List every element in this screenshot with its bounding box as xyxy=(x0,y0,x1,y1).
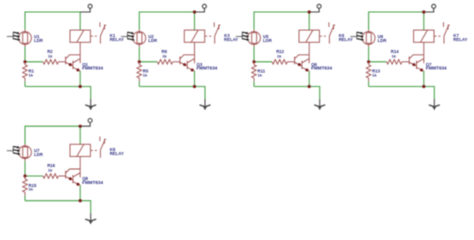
wire relay coil feed xyxy=(194,12,196,30)
wire relay coil feed xyxy=(308,12,310,30)
svg-text:RELAY: RELAY xyxy=(224,37,238,42)
svg-text:1k: 1k xyxy=(143,72,148,77)
junction emitter / ground rail xyxy=(79,85,82,88)
junction top rail xyxy=(193,10,196,13)
resistor R14 xyxy=(387,60,410,65)
wire relay coil feed xyxy=(423,12,425,30)
LDR U5 xyxy=(248,30,261,47)
relay actuation dashed link xyxy=(91,35,98,37)
svg-text:RELAY: RELAY xyxy=(339,37,353,42)
svg-text:RELAY: RELAY xyxy=(453,37,467,42)
wire emitter to ground rail xyxy=(423,71,425,87)
wire R13 bottom to ground rail xyxy=(368,81,370,86)
svg-text:RELAY: RELAY xyxy=(110,151,124,156)
junction emitter / ground rail xyxy=(308,85,311,88)
svg-text:FMMT634: FMMT634 xyxy=(82,66,103,71)
wire divider node to base resistor xyxy=(369,61,387,63)
LDR light arrows xyxy=(121,32,135,41)
wire ground rail xyxy=(139,87,205,100)
supply terminal pin xyxy=(80,119,92,127)
emitter arrow T1 xyxy=(412,63,415,66)
svg-text:RELAY: RELAY xyxy=(110,37,124,42)
emitter arrow T1 xyxy=(298,63,301,66)
junction divider node xyxy=(252,60,255,63)
LDR light arrows xyxy=(350,32,364,41)
resistor R11 xyxy=(252,62,257,82)
emitter arrow T2 xyxy=(76,69,79,72)
resistor R2 xyxy=(43,60,66,65)
relay coil K1 xyxy=(70,30,90,42)
resistor R12 xyxy=(272,60,295,65)
resistor R1 xyxy=(23,62,28,82)
wire LDR bottom to divider node xyxy=(253,47,255,62)
wire V+ top rail xyxy=(369,12,424,30)
emitter arrow T2 xyxy=(420,69,423,72)
junction divider node xyxy=(23,60,26,63)
relay contact switch K3 xyxy=(214,22,220,43)
wire LDR bottom to divider node xyxy=(138,47,140,62)
resistor R6 xyxy=(157,60,180,65)
junction emitter / ground rail xyxy=(193,85,196,88)
ground xyxy=(200,99,211,110)
wire R5 bottom to ground rail xyxy=(138,81,140,86)
wire relay coil feed xyxy=(79,12,81,30)
svg-text:LDR: LDR xyxy=(148,38,158,43)
relay coil K3 xyxy=(184,30,204,42)
relay contact switch K7 xyxy=(444,22,450,43)
wire emitter to ground rail xyxy=(79,185,81,201)
emitter arrow T1 xyxy=(183,63,186,66)
svg-text:FMMT634: FMMT634 xyxy=(197,66,218,71)
junction top rail xyxy=(422,10,425,13)
resistor R15 xyxy=(23,176,28,196)
svg-text:1k: 1k xyxy=(392,53,397,58)
relay contact switch K6 xyxy=(329,22,335,43)
wire V+ top rail xyxy=(254,12,309,30)
relay coil K6 xyxy=(299,30,319,42)
wire ground rail xyxy=(25,201,91,214)
wire R11 bottom to ground rail xyxy=(253,81,255,86)
relay actuation dashed link xyxy=(91,149,98,151)
wire relay coil feed xyxy=(79,126,81,144)
wire LDR bottom to divider node xyxy=(24,161,26,176)
wire emitter to ground rail xyxy=(308,71,310,87)
junction emitter / ground rail xyxy=(422,85,425,88)
wire divider node to base resistor xyxy=(25,175,43,177)
wire V+ top rail xyxy=(25,12,80,30)
svg-text:1k: 1k xyxy=(277,53,282,58)
relay actuation dashed link xyxy=(320,35,327,37)
svg-text:FMMT634: FMMT634 xyxy=(82,180,103,185)
ground xyxy=(429,99,440,110)
svg-text:1k: 1k xyxy=(162,53,167,58)
wire V+ top rail xyxy=(139,12,194,30)
wire LDR bottom to divider node xyxy=(368,47,370,62)
transistor Q8 FMMT634 darlington xyxy=(66,157,81,186)
relay coil K8 xyxy=(70,144,90,156)
resistor R13 xyxy=(366,62,371,82)
wire LDR bottom to divider node xyxy=(24,47,26,62)
wire divider node to base resistor xyxy=(139,61,157,63)
relay actuation dashed link xyxy=(205,35,212,37)
emitter arrow T2 xyxy=(76,183,79,186)
wire divider node to base resistor xyxy=(25,61,43,63)
svg-text:1k: 1k xyxy=(48,53,53,58)
LDR light arrows xyxy=(236,32,250,41)
ground xyxy=(314,99,325,110)
svg-text:1k: 1k xyxy=(258,72,263,77)
svg-text:LDR: LDR xyxy=(263,38,273,43)
relay coil K7 xyxy=(414,30,434,42)
ground xyxy=(85,213,96,224)
resistor R5 xyxy=(137,62,142,82)
junction top rail xyxy=(308,10,311,13)
emitter arrow T1 xyxy=(69,63,72,66)
wire divider node to base resistor xyxy=(254,61,272,63)
wire ground rail xyxy=(254,87,320,100)
junction divider node xyxy=(138,60,141,63)
svg-text:1k: 1k xyxy=(29,187,34,192)
supply terminal pin xyxy=(80,4,92,12)
wire ground rail xyxy=(25,87,91,100)
supply terminal pin xyxy=(309,4,321,12)
wire R15 bottom to ground rail xyxy=(24,196,26,201)
svg-text:1k: 1k xyxy=(372,72,377,77)
ground xyxy=(85,99,96,110)
supply terminal pin xyxy=(195,4,207,12)
LDR U2 xyxy=(133,30,146,47)
relay contact switch K1 xyxy=(100,22,106,43)
wire emitter to ground rail xyxy=(194,71,196,87)
transistor Q7 FMMT634 darlington xyxy=(409,42,424,71)
junction top rail xyxy=(79,125,82,128)
transistor Q6 FMMT634 darlington xyxy=(295,42,310,71)
emitter arrow T1 xyxy=(69,177,72,180)
junction divider node xyxy=(23,174,26,177)
svg-text:FMMT634: FMMT634 xyxy=(311,66,332,71)
svg-text:LDR: LDR xyxy=(34,38,44,43)
resistor R16 xyxy=(43,174,66,179)
transistor Q1 FMMT634 darlington xyxy=(66,42,81,71)
LDR U7 xyxy=(19,144,32,161)
wire V+ top rail xyxy=(25,126,80,144)
relay actuation dashed link xyxy=(434,35,441,37)
svg-text:1k: 1k xyxy=(48,168,53,173)
transistor Q3 FMMT634 darlington xyxy=(180,42,195,71)
supply terminal pin xyxy=(424,4,436,12)
svg-text:FMMT634: FMMT634 xyxy=(426,66,447,71)
svg-text:LDR: LDR xyxy=(378,38,388,43)
LDR U1 xyxy=(19,30,32,47)
emitter arrow T2 xyxy=(305,69,308,72)
wire emitter to ground rail xyxy=(79,71,81,87)
emitter arrow T2 xyxy=(191,69,194,72)
LDR U6 xyxy=(362,30,375,47)
junction emitter / ground rail xyxy=(79,199,82,202)
wire R1 bottom to ground rail xyxy=(24,81,26,86)
LDR light arrows xyxy=(7,32,21,41)
junction divider node xyxy=(367,60,370,63)
svg-text:1k: 1k xyxy=(29,72,34,77)
wire ground rail xyxy=(369,87,435,100)
svg-text:LDR: LDR xyxy=(34,152,44,157)
relay contact switch K8 xyxy=(100,137,106,158)
LDR light arrows xyxy=(7,146,21,155)
